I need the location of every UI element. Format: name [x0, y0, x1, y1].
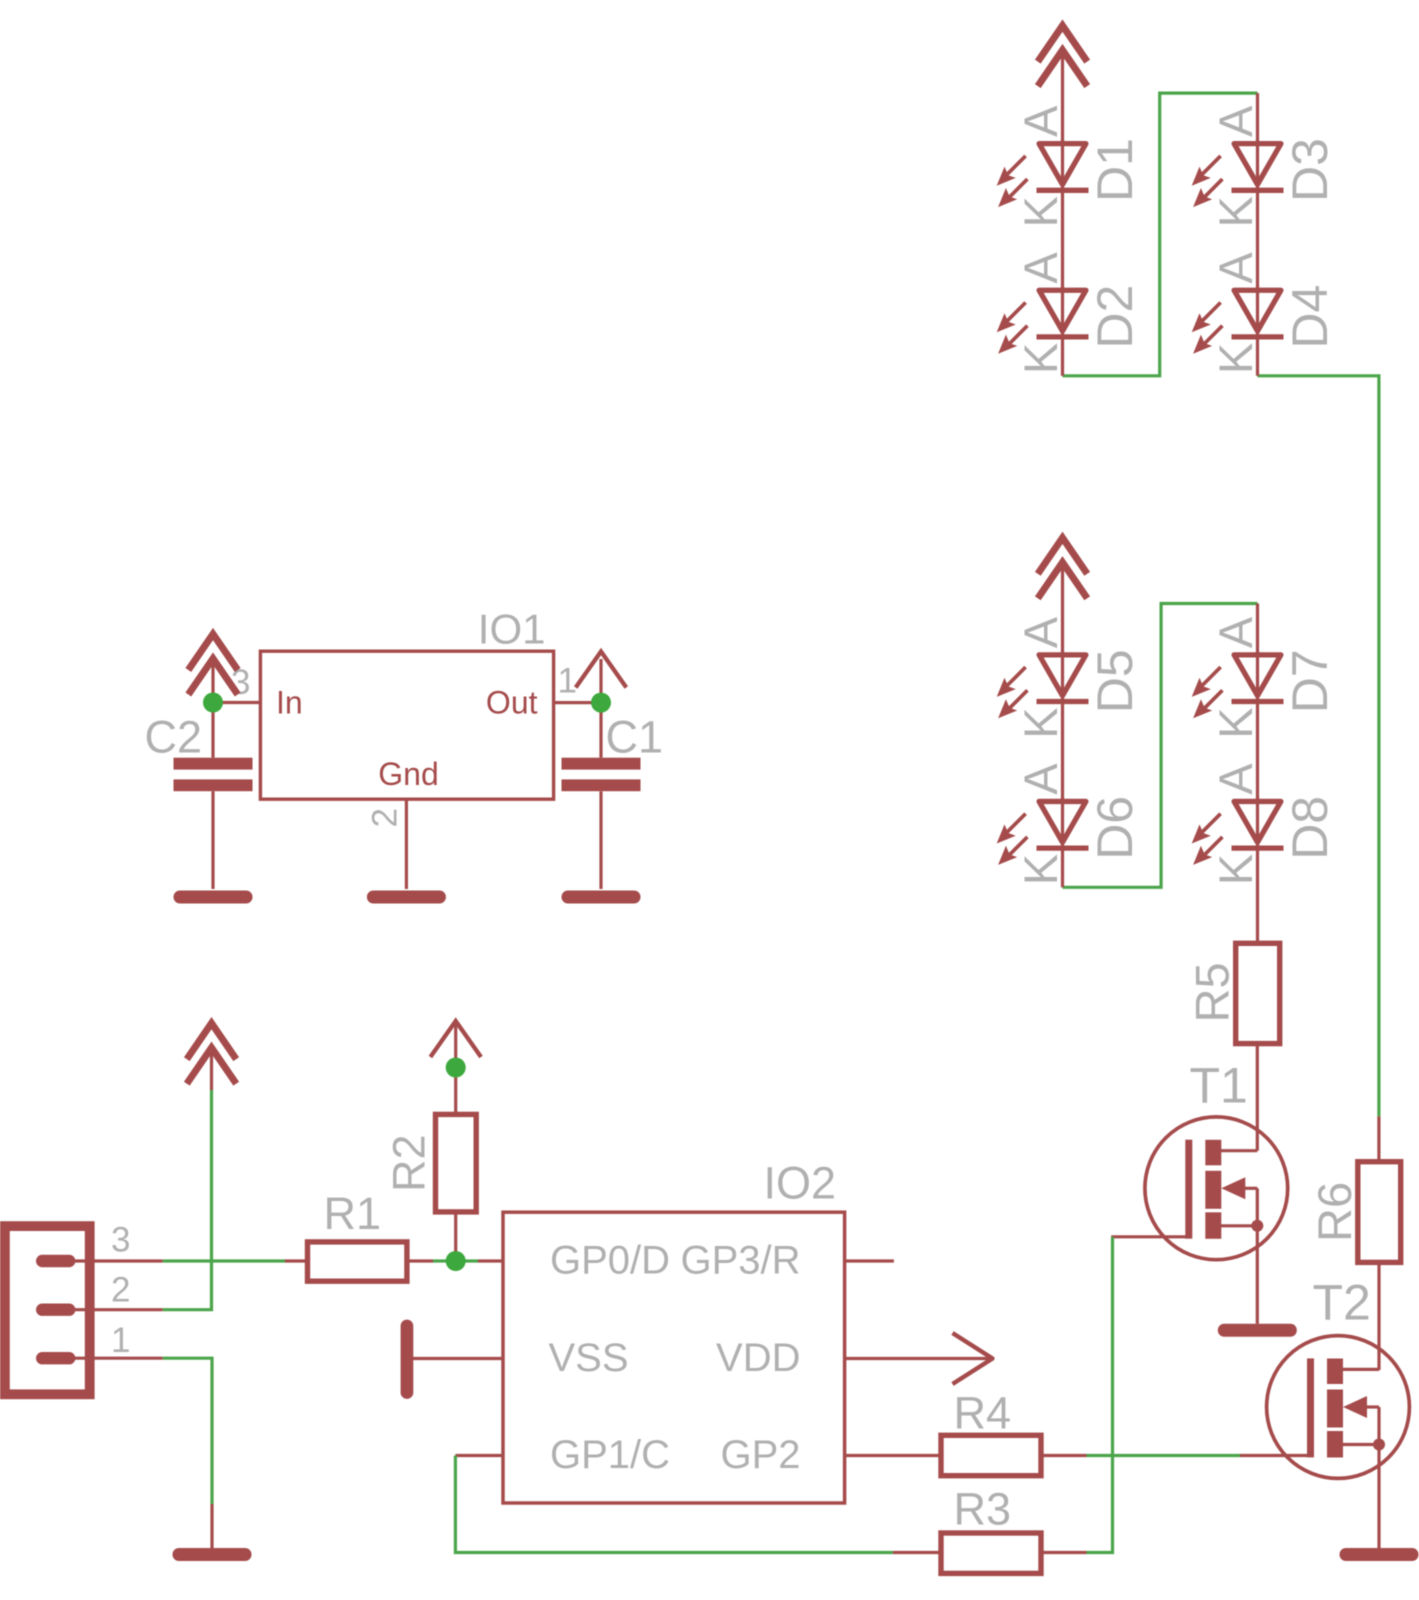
wire D5-D6	[1061, 702, 1064, 799]
pin 1 lead	[554, 701, 601, 704]
supply +BATT arrow above D1	[1038, 26, 1087, 87]
resistor R5	[1236, 943, 1280, 1043]
svg-text:K: K	[1209, 707, 1262, 738]
ground below T2	[1340, 1548, 1419, 1561]
transistor T2 (n-channel MOSFET)	[1240, 1336, 1409, 1479]
wire R5 to T1 drain	[1256, 1044, 1259, 1151]
wire D8 to R5	[1256, 848, 1259, 943]
wire R4 to T2 gate	[1087, 1454, 1241, 1457]
svg-text:R4: R4	[954, 1388, 1012, 1439]
resistor R6	[1358, 1162, 1401, 1263]
svg-text:GP1/C: GP1/C	[550, 1433, 670, 1477]
svg-text:A: A	[1014, 252, 1067, 284]
capacitor C2	[174, 703, 253, 890]
svg-text:IO1: IO1	[478, 606, 546, 653]
resistor R4	[941, 1435, 1087, 1475]
LED D3	[1192, 139, 1284, 207]
svg-text:D3: D3	[1282, 138, 1338, 202]
junction node R1/R2/GP0	[446, 1251, 466, 1271]
VDD pin lead	[845, 1357, 990, 1360]
svg-text:D2: D2	[1087, 285, 1143, 349]
svg-text:VDD: VDD	[716, 1336, 800, 1380]
svg-text:K: K	[1014, 854, 1067, 885]
supply VCC arrow at VDD (pointing right)	[953, 1333, 993, 1384]
ground bottom left	[173, 1548, 252, 1561]
supply +BATT arrow at IO1 input	[188, 634, 237, 695]
wire pin2 up to +BATT	[163, 1090, 212, 1310]
svg-text:VSS: VSS	[549, 1336, 629, 1380]
GP0/D pin lead	[478, 1259, 503, 1262]
pin 3 lead	[213, 701, 260, 704]
LED D5	[997, 650, 1089, 718]
svg-text:1: 1	[111, 1321, 130, 1360]
wire GP1/C to R3	[455, 1456, 893, 1553]
supply +BATT arrow above D5	[1038, 538, 1087, 599]
svg-text:T2: T2	[1313, 1275, 1371, 1331]
svg-text:1: 1	[558, 662, 577, 701]
wire R6 to T2 drain	[1377, 1262, 1380, 1370]
GP3/R pin lead (unconnected)	[845, 1259, 894, 1262]
wire D2 cathode to D3 column top	[1063, 93, 1258, 376]
svg-text:A: A	[1014, 616, 1067, 648]
svg-text:D7: D7	[1282, 649, 1338, 713]
resistor R2	[436, 1025, 477, 1261]
ground below C2	[174, 891, 253, 904]
supply +BATT arrow bottom left	[187, 1023, 236, 1083]
LED D2	[997, 286, 1089, 354]
connector pin 1	[36, 1352, 75, 1364]
svg-text:R5: R5	[1186, 962, 1239, 1022]
LED D1	[997, 139, 1089, 207]
resistor R1	[285, 1242, 433, 1281]
junction node at IO1 Out	[591, 693, 611, 713]
svg-text:D4: D4	[1282, 285, 1338, 349]
svg-text:K: K	[1014, 707, 1067, 738]
svg-text:2: 2	[366, 808, 405, 827]
LED D6	[997, 797, 1089, 865]
svg-text:D8: D8	[1282, 796, 1338, 860]
GP2 pin lead	[845, 1454, 941, 1457]
ground below C1	[562, 891, 641, 904]
junction node above R2	[446, 1058, 466, 1078]
svg-text:2: 2	[111, 1271, 130, 1310]
GP1/C pin lead	[455, 1454, 503, 1457]
svg-text:T1: T1	[1190, 1058, 1248, 1114]
wire R3 up to T1 gate	[1087, 1237, 1113, 1553]
connector pin 3	[36, 1255, 75, 1267]
supply VCC arrow at IO1 output	[576, 652, 627, 688]
svg-text:D6: D6	[1087, 796, 1143, 860]
svg-text:K: K	[1014, 196, 1067, 227]
ground below IO1 pin 2	[367, 891, 446, 904]
VSS pin lead	[413, 1357, 503, 1360]
svg-text:A: A	[1209, 252, 1262, 284]
svg-text:K: K	[1209, 196, 1262, 227]
wire D2 to net	[1061, 337, 1064, 376]
pin 2 lead (Gnd)	[405, 799, 408, 889]
svg-text:C2: C2	[145, 712, 203, 763]
wire T1 source to ground	[1256, 1226, 1259, 1324]
LED D8	[1192, 797, 1284, 865]
wire D6 cathode to D7 column top	[1063, 604, 1258, 888]
svg-text:R6: R6	[1308, 1182, 1361, 1242]
wire D1-D2	[1061, 190, 1064, 287]
capacitor C1	[562, 703, 641, 889]
wire T2 source to ground	[1377, 1445, 1380, 1549]
svg-text:GP0/D: GP0/D	[550, 1239, 670, 1283]
transistor T1 (n-channel MOSFET)	[1111, 1117, 1288, 1260]
wire D4 cathode down right side to R6	[1258, 376, 1379, 1117]
wire right net into R6	[1377, 1116, 1380, 1161]
svg-text:R1: R1	[324, 1188, 382, 1239]
svg-text:A: A	[1209, 763, 1262, 795]
wire D6 to net	[1061, 848, 1064, 887]
svg-text:K: K	[1014, 343, 1067, 374]
junction node at IO1 In	[203, 693, 223, 713]
svg-text:Gnd: Gnd	[378, 756, 438, 792]
ground below T1	[1218, 1324, 1297, 1337]
svg-text:3: 3	[111, 1221, 130, 1260]
connector pin 2	[36, 1304, 75, 1316]
svg-text:GP2: GP2	[720, 1433, 800, 1477]
svg-text:A: A	[1209, 616, 1262, 648]
svg-text:In: In	[276, 685, 303, 721]
svg-text:A: A	[1014, 763, 1067, 795]
wire D4 to net	[1256, 337, 1259, 376]
LED D4	[1192, 286, 1284, 354]
svg-text:K: K	[1209, 343, 1262, 374]
connector X1 body	[5, 1226, 90, 1394]
wire top net to D3	[1256, 93, 1259, 141]
wire net to D7	[1256, 604, 1259, 653]
wire R1 to IO2	[433, 1259, 478, 1262]
svg-text:A: A	[1014, 105, 1067, 137]
IC IO1 (voltage regulator) box	[260, 651, 553, 799]
IC IO2 box	[503, 1212, 845, 1503]
wire D3-D4	[1256, 190, 1259, 287]
svg-text:C1: C1	[606, 712, 664, 763]
VSS stop bar	[401, 1320, 414, 1399]
svg-text:R3: R3	[954, 1484, 1012, 1535]
svg-text:K: K	[1209, 854, 1262, 885]
svg-text:IO2: IO2	[763, 1158, 836, 1209]
supply VCC arrow above R2	[430, 1021, 481, 1057]
svg-text:GP3/R: GP3/R	[680, 1239, 800, 1283]
svg-text:D5: D5	[1087, 649, 1143, 713]
svg-text:Out: Out	[486, 685, 538, 721]
wire D7-D8	[1256, 702, 1259, 799]
svg-text:D1: D1	[1087, 138, 1143, 202]
svg-text:A: A	[1209, 105, 1262, 137]
resistor R3	[893, 1533, 1087, 1573]
wire pin3 to R1	[163, 1259, 285, 1262]
svg-text:R2: R2	[384, 1134, 435, 1192]
wire pin1 down to ground	[163, 1358, 212, 1504]
LED D7	[1192, 650, 1284, 718]
